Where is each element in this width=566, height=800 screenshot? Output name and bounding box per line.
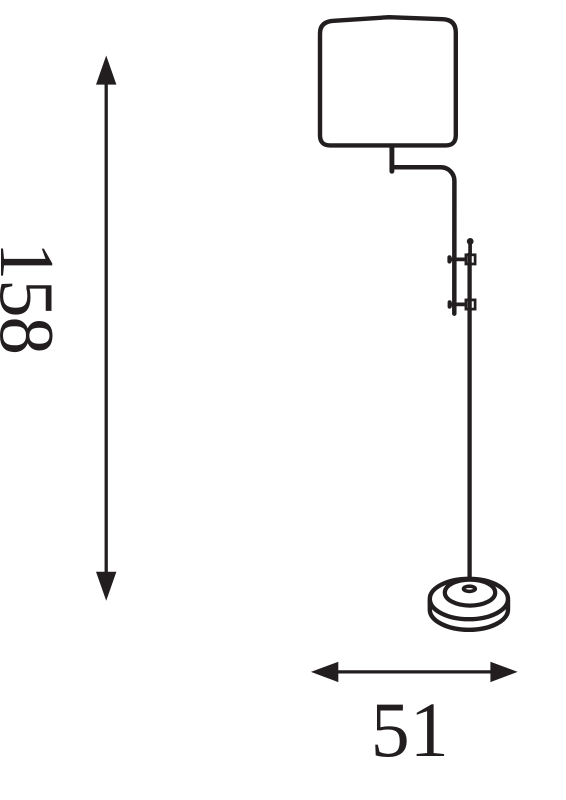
stem stub below shade <box>389 146 394 171</box>
adjustment ball on inner pole <box>467 238 474 245</box>
base inner ellipse <box>445 580 495 606</box>
arm and upper pole <box>393 167 455 313</box>
lower clamp square <box>466 300 475 309</box>
height dimension bottom arrowhead <box>96 572 116 601</box>
upper clamp rod <box>449 257 466 261</box>
upper clamp knob <box>447 255 451 263</box>
lower clamp rod <box>450 302 466 306</box>
upper clamp square <box>466 255 475 264</box>
height dimension top arrowhead <box>96 56 116 85</box>
ball neck <box>468 242 472 254</box>
width dimension line <box>336 670 492 673</box>
svg-text:158: 158 <box>0 242 70 354</box>
height dimension line <box>105 82 108 574</box>
lampshade <box>320 17 456 145</box>
svg-text:51: 51 <box>371 686 449 773</box>
base bottom arc <box>430 600 508 630</box>
base outer ellipse <box>430 579 508 619</box>
inner pole <box>467 253 471 591</box>
width dimension right arrowhead <box>490 662 517 682</box>
lower clamp knob <box>448 300 452 308</box>
base hub ellipse <box>464 586 476 591</box>
width dimension left arrowhead <box>311 662 338 682</box>
